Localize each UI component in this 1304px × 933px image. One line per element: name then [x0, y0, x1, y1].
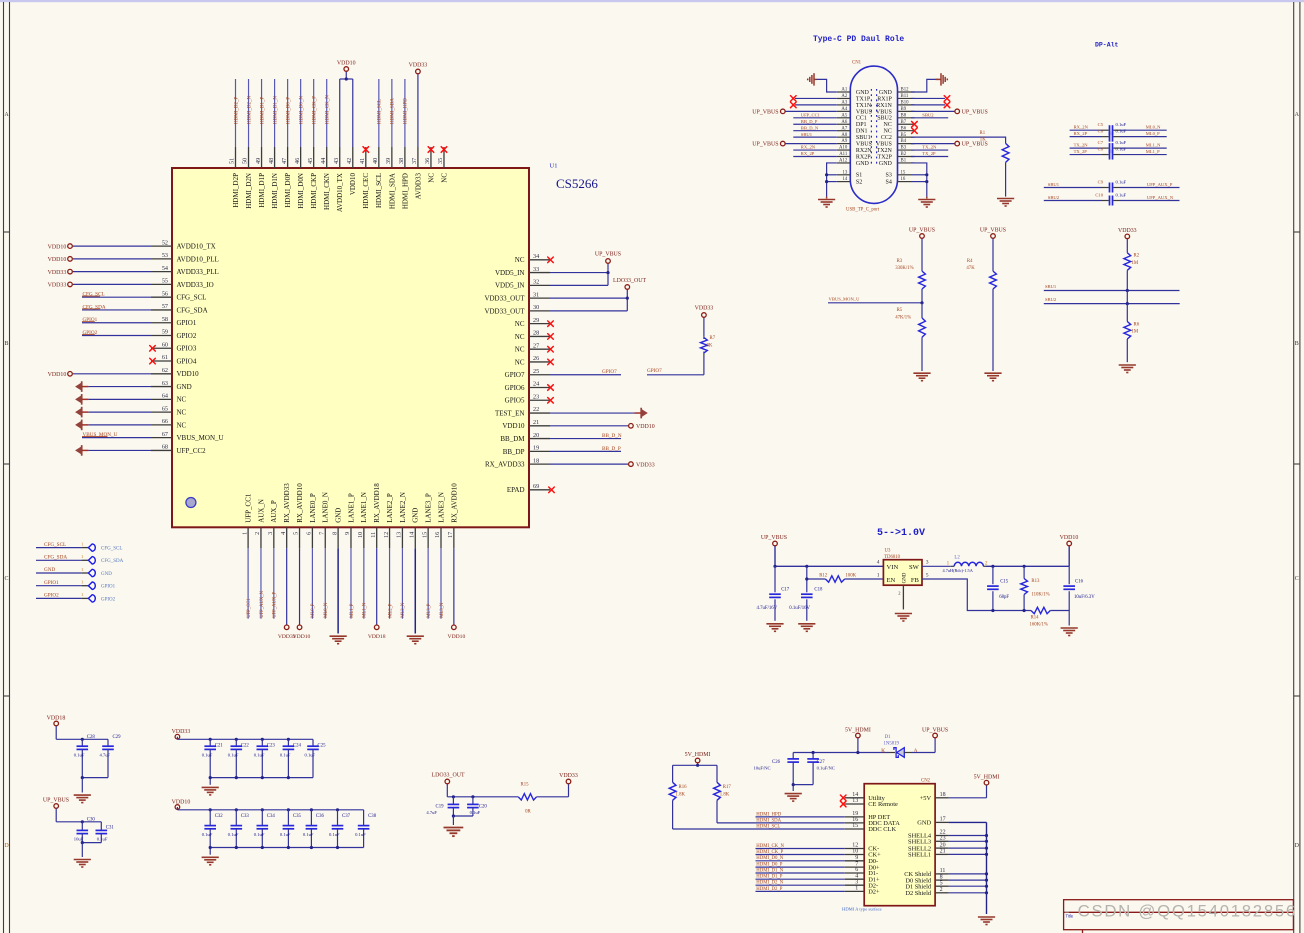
svg-text:42: 42 [346, 158, 353, 164]
svg-text:1.8K: 1.8K [720, 793, 730, 798]
svg-text:SBU1: SBU1 [1045, 284, 1057, 289]
svg-text:13: 13 [396, 532, 403, 538]
svg-text:VBUS_MON_U: VBUS_MON_U [177, 434, 224, 442]
resistor R7 [701, 336, 716, 356]
svg-text:VDD10: VDD10 [48, 372, 67, 378]
svg-text:CC1: CC1 [856, 116, 867, 122]
pin 15 LANE3_P [421, 493, 432, 619]
CN2 pin 7 D0+ [756, 861, 881, 871]
svg-text:AVDD33_PLL: AVDD33_PLL [177, 268, 219, 276]
CN1 pin A9 VBUS [837, 139, 872, 147]
ground HDMI shield bus [978, 917, 995, 925]
capacitor C36 [303, 810, 325, 848]
svg-text:C25: C25 [318, 743, 327, 748]
svg-text:UFP_AUX_P: UFP_AUX_P [1147, 182, 1173, 187]
svg-text:13: 13 [843, 170, 848, 175]
svg-text:C8: C8 [1098, 146, 1104, 151]
svg-text:66: 66 [162, 418, 168, 425]
capacitor C22 [228, 739, 250, 777]
pin 13 LANE2_N [396, 492, 407, 619]
svg-text:GPIO1: GPIO1 [83, 317, 98, 323]
svg-text:RX_AVDD10: RX_AVDD10 [450, 483, 458, 523]
svg-text:6: 6 [855, 867, 858, 873]
capacitor C16 [1063, 566, 1095, 610]
svg-text:B: B [4, 341, 8, 347]
svg-text:4.7uH(Rdc)-1.5A: 4.7uH(Rdc)-1.5A [943, 568, 974, 573]
svg-text:33: 33 [533, 266, 539, 273]
svg-text:10uF/6.3V: 10uF/6.3V [1074, 595, 1095, 600]
capacitor C21 [202, 739, 224, 777]
svg-text:CFG_SDA: CFG_SDA [44, 555, 67, 561]
svg-text:AVDD10_PLL: AVDD10_PLL [177, 255, 219, 263]
svg-text:VDD10: VDD10 [48, 257, 67, 263]
wire VDD10 bottom rail [210, 846, 363, 849]
svg-text:RX_2N: RX_2N [801, 145, 816, 150]
wire B10 RX1N no-connect [911, 102, 950, 108]
svg-text:31: 31 [533, 291, 539, 298]
svg-text:23: 23 [940, 836, 946, 842]
svg-text:55: 55 [162, 278, 168, 285]
svg-text:GND: GND [856, 161, 870, 167]
svg-text:1N5819: 1N5819 [884, 741, 900, 746]
svg-text:9: 9 [344, 532, 351, 535]
svg-text:SBU2: SBU2 [877, 116, 892, 122]
svg-text:330K/1%: 330K/1% [895, 266, 913, 271]
wire A2 TX1P no-connect [791, 96, 837, 102]
svg-text:NC: NC [884, 122, 892, 128]
pin 52 AVDD10_TX [48, 239, 216, 250]
svg-text:VDD33: VDD33 [409, 63, 428, 69]
svg-text:NC: NC [884, 129, 892, 135]
capacitor C9 [1044, 179, 1180, 192]
svg-text:1: 1 [947, 560, 950, 566]
wire SBU2 horizontal [1044, 297, 1180, 305]
ground VDD18 bank [74, 795, 91, 803]
svg-text:0.1uF: 0.1uF [1116, 128, 1127, 133]
svg-text:GPIO4: GPIO4 [177, 357, 197, 365]
svg-text:RX_2P: RX_2P [1074, 131, 1088, 136]
pin 8 GND [330, 508, 347, 644]
svg-text:HDMI_CK_P: HDMI_CK_P [756, 850, 783, 855]
resistor R13 [1021, 566, 1050, 610]
svg-text:BB_D_P: BB_D_P [602, 446, 621, 452]
svg-text:57: 57 [162, 303, 168, 310]
svg-text:GND: GND [177, 383, 192, 391]
svg-text:B: B [1295, 341, 1299, 347]
CN1 pin 16 S4 [886, 177, 911, 185]
sheet frame right [1293, 2, 1295, 933]
svg-text:U3: U3 [885, 549, 891, 554]
svg-text:HDMI_CK_N: HDMI_CK_N [326, 95, 331, 124]
ground VDD10 bank [202, 857, 219, 865]
capacitor C38 [355, 810, 377, 848]
pin 37 AVDD33 [411, 74, 422, 199]
svg-text:HDMI_D2N: HDMI_D2N [245, 173, 253, 209]
svg-text:CN1: CN1 [852, 60, 862, 65]
op-amp U1 CS5266 body [172, 168, 529, 527]
pin 4 RX_AVDD33 [280, 483, 291, 630]
B7 no-connect [912, 121, 918, 127]
svg-text:0.1uF: 0.1uF [1116, 192, 1127, 197]
svg-text:VDD10: VDD10 [502, 422, 525, 430]
pin 18 RX_AVDD33 [485, 457, 655, 468]
svg-text:CFG_SDA: CFG_SDA [101, 559, 124, 564]
svg-text:0.1uF: 0.1uF [280, 832, 291, 837]
svg-text:47K: 47K [966, 266, 975, 271]
svg-text:1: 1 [877, 572, 880, 578]
power port VDD18 [47, 716, 66, 740]
svg-text:HDMI_D1_N: HDMI_D1_N [273, 96, 278, 124]
wire A5 CC1 net UFP_CC1 [793, 112, 837, 117]
svg-text:10uF: 10uF [74, 837, 84, 842]
svg-text:VBUS: VBUS [856, 142, 872, 148]
power port UP_VBUS at B9 [911, 109, 988, 115]
svg-text:BB_DP: BB_DP [503, 448, 525, 456]
CN2 pin 18 +5V [920, 785, 987, 802]
CN2 pin 12 CK- [756, 843, 880, 853]
wire FB feedback [922, 579, 1031, 612]
svg-text:HDMI_SDA: HDMI_SDA [388, 173, 396, 209]
svg-text:R15: R15 [521, 783, 530, 788]
svg-text:AVDD33_IO: AVDD33_IO [177, 281, 214, 289]
svg-text:HDMI_D2P: HDMI_D2P [232, 173, 240, 208]
svg-text:0.1uF/16V: 0.1uF/16V [789, 606, 810, 611]
svg-text:C34: C34 [267, 814, 276, 819]
wire HDMI ground bus [986, 822, 988, 914]
svg-text:4: 4 [877, 560, 880, 566]
capacitor C28 [74, 735, 96, 778]
svg-text:HDMI_D0P: HDMI_D0P [284, 173, 292, 208]
svg-text:B10: B10 [901, 101, 910, 106]
svg-text:1M: 1M [1132, 330, 1139, 335]
svg-text:UFP_CC2: UFP_CC2 [177, 447, 207, 455]
pin 51 HDMI_D2P [229, 79, 240, 208]
power port 5V_HDMI right [974, 775, 1000, 785]
power port UP_VBUS bottom left [43, 798, 69, 822]
wire B11 RX1P no-connect [911, 96, 950, 102]
CN1 pin B9 VBUS [876, 107, 915, 115]
svg-text:C16: C16 [1075, 579, 1084, 584]
svg-text:GND: GND [879, 161, 893, 167]
connector CFG_SDA test point [36, 554, 124, 564]
svg-text:5: 5 [293, 532, 300, 535]
svg-text:HDMI A type surface: HDMI A type surface [842, 907, 882, 912]
svg-text:LANE1_N: LANE1_N [360, 492, 368, 523]
svg-text:ML0_N: ML0_N [324, 602, 329, 618]
wire A1 GND to rotated ground [817, 79, 837, 92]
svg-text:A8: A8 [841, 133, 847, 138]
svg-text:CFG_SDA: CFG_SDA [83, 304, 106, 310]
svg-text:D: D [4, 843, 9, 849]
svg-text:VBUS: VBUS [876, 142, 892, 148]
CN2 pin 6 D1- [756, 867, 879, 877]
power port VDD10 bank [172, 800, 191, 810]
wire L2 to VDD10 [986, 565, 1069, 568]
power port UP_VBUS regulator input [761, 535, 787, 566]
svg-text:TX1N: TX1N [856, 103, 872, 109]
svg-text:HDMI_SCL: HDMI_SCL [375, 173, 383, 208]
svg-text:CE Remote: CE Remote [868, 801, 898, 808]
svg-text:HDMI_CK_P: HDMI_CK_P [312, 96, 317, 124]
svg-text:AUX_P: AUX_P [270, 500, 278, 523]
svg-text:R4: R4 [967, 259, 973, 264]
svg-text:HDMI_SDA: HDMI_SDA [756, 818, 781, 823]
svg-text:4.7uF: 4.7uF [426, 810, 437, 815]
wire A12 S1 S2 ground chain [825, 163, 837, 197]
capacitor C5 [1070, 122, 1167, 135]
svg-text:RX2P: RX2P [856, 154, 871, 160]
svg-text:28: 28 [533, 330, 539, 337]
power port VDD33 above R7 [695, 306, 714, 337]
svg-text:SBU1: SBU1 [1048, 182, 1060, 187]
svg-text:HDMI_CEC: HDMI_CEC [362, 173, 370, 209]
svg-text:ML0_P: ML0_P [311, 603, 316, 618]
svg-text:27: 27 [533, 342, 539, 349]
CN1 dashed separator left [870, 89, 872, 165]
pin 9 LANE1_P [344, 493, 355, 619]
svg-text:0.1uF: 0.1uF [1116, 122, 1127, 127]
svg-text:HDMI_SDA: HDMI_SDA [391, 98, 396, 124]
svg-text:0.1uF: 0.1uF [202, 832, 213, 837]
wire VDD33 rail [177, 737, 313, 741]
svg-text:HDMI_HPD: HDMI_HPD [401, 173, 409, 209]
wire to ground VDD10 bank [209, 846, 212, 855]
svg-text:65: 65 [162, 405, 168, 412]
svg-text:CS5266: CS5266 [556, 176, 598, 191]
wire 5V_HDMI pullup rail [673, 764, 717, 783]
power port VDD33 above R2 [1118, 228, 1137, 253]
svg-text:GND: GND [879, 90, 893, 96]
svg-text:NC: NC [515, 358, 525, 366]
svg-text:C7: C7 [1098, 140, 1104, 145]
svg-text:53: 53 [162, 252, 168, 259]
wire VBUS_MON_U [828, 296, 924, 304]
svg-text:UFP_CC1: UFP_CC1 [801, 112, 821, 117]
svg-text:14: 14 [852, 792, 858, 798]
svg-text:47K/1%: 47K/1% [895, 316, 911, 321]
svg-text:3: 3 [926, 560, 929, 566]
ground regulator output [1061, 628, 1078, 636]
svg-text:VDD33: VDD33 [172, 729, 191, 735]
svg-text:C30: C30 [87, 818, 96, 823]
power port LDO33_OUT at pins 31/30 [613, 278, 646, 300]
svg-text:C17: C17 [781, 588, 790, 593]
power port UP_VBUS at A4 [752, 109, 837, 115]
svg-text:B3: B3 [901, 146, 907, 151]
svg-text:R7: R7 [710, 336, 716, 341]
CN1 pin B11 RX1P [877, 94, 914, 102]
svg-text:34: 34 [533, 253, 539, 260]
svg-text:ML3_N: ML3_N [440, 602, 445, 618]
capacitor C24 [280, 739, 302, 777]
capacitor C23 [254, 739, 276, 777]
pin 69 EPAD [507, 483, 554, 494]
svg-text:0.1uF: 0.1uF [303, 832, 314, 837]
CN1 pin 13 S1 [837, 170, 862, 178]
svg-text:C27: C27 [817, 760, 826, 765]
pin 48 HDMI_D1N [268, 79, 279, 209]
svg-text:BB_D_N: BB_D_N [801, 125, 819, 130]
resistor R14 [1030, 607, 1070, 627]
svg-text:AVDD10_TX: AVDD10_TX [336, 173, 344, 212]
wire LDO33 bottom rail [452, 814, 473, 817]
wire diode anode to UP_VBUS [911, 738, 935, 752]
CN2 pin 13 CE Remote [840, 798, 898, 808]
svg-text:CC2: CC2 [881, 135, 892, 141]
svg-text:15: 15 [421, 532, 428, 538]
svg-text:VBUS: VBUS [876, 109, 892, 115]
CN1 pin B1 GND [879, 159, 915, 167]
capacitor C31 [96, 822, 115, 843]
svg-text:VDD10: VDD10 [48, 244, 67, 250]
svg-text:15: 15 [901, 170, 906, 175]
svg-text:20: 20 [533, 432, 539, 439]
svg-text:3: 3 [855, 879, 858, 885]
svg-text:HDMI_D0_N: HDMI_D0_N [299, 96, 304, 124]
pin 19 BB_DP [503, 445, 621, 456]
capacitor C7 [1070, 140, 1167, 153]
power port 5V_HDMI left [685, 752, 711, 765]
CN1 pin B10 RX1N [876, 101, 914, 109]
pin 57 CFG_SDA [82, 303, 208, 314]
svg-text:32: 32 [533, 279, 539, 286]
wire UP_VBUS rail [56, 820, 101, 823]
svg-text:R3: R3 [897, 259, 903, 264]
wire LDO33 rail [447, 795, 518, 798]
svg-text:C21: C21 [215, 743, 224, 748]
ground below U3 [895, 614, 912, 622]
svg-text:C19: C19 [436, 805, 445, 810]
pin 47 HDMI_D0P [281, 79, 292, 208]
CN2 pin 21 SHELL1 [908, 849, 988, 859]
capacitor C18 [789, 588, 823, 621]
svg-text:0.1uF: 0.1uF [228, 752, 239, 757]
CN1 pin B2 TX2P [878, 152, 915, 160]
svg-text:LANE1_P: LANE1_P [347, 493, 355, 523]
svg-text:NC: NC [177, 421, 187, 429]
svg-text:DDC CLK: DDC CLK [868, 826, 896, 833]
svg-text:58: 58 [162, 316, 168, 323]
svg-text:UFP_AUX_P: UFP_AUX_P [273, 591, 278, 617]
svg-text:A4: A4 [841, 107, 847, 112]
svg-text:ML1_P: ML1_P [1146, 149, 1160, 154]
svg-text:Type-C PD Daul Role: Type-C PD Daul Role [813, 35, 904, 44]
svg-text:B5: B5 [901, 133, 907, 138]
svg-text:ML3_P: ML3_P [427, 603, 432, 618]
svg-text:S2: S2 [856, 180, 862, 186]
svg-text:C26: C26 [772, 760, 781, 765]
svg-text:5V_HDMI: 5V_HDMI [685, 752, 711, 758]
svg-text:VDD33: VDD33 [636, 462, 655, 468]
svg-text:UFP_AUX_N: UFP_AUX_N [1147, 195, 1174, 200]
connector GPIO2 test point [36, 592, 116, 602]
CN2 pin 3 D2- [756, 879, 879, 889]
svg-text:DP1: DP1 [856, 122, 867, 128]
svg-text:43: 43 [333, 158, 340, 164]
svg-text:BB_D_N: BB_D_N [602, 433, 622, 439]
power port VDD33 over pin 37 [409, 63, 428, 74]
svg-text:VDD33_OUT: VDD33_OUT [484, 295, 525, 303]
svg-text:NC: NC [515, 333, 525, 341]
svg-text:GND: GND [903, 572, 908, 583]
svg-text:C33: C33 [241, 814, 250, 819]
svg-text:19: 19 [533, 445, 539, 452]
wire SBU1 horizontal [1044, 284, 1180, 292]
svg-text:51: 51 [229, 158, 236, 164]
CN2 pin 8 D0 Shield [905, 874, 988, 884]
svg-text:160K/1%: 160K/1% [1030, 623, 1048, 628]
svg-text:R17: R17 [723, 785, 732, 790]
svg-text:40: 40 [372, 158, 379, 164]
svg-text:EPAD: EPAD [507, 486, 525, 494]
CN1 pin 15 S3 [886, 170, 911, 178]
pin 6 LANE0_P [306, 493, 317, 619]
svg-text:RX_AVDD33: RX_AVDD33 [283, 483, 291, 523]
pin 63 GND [75, 380, 192, 392]
inductor L2 [943, 556, 988, 573]
svg-text:R6: R6 [1134, 322, 1140, 327]
resistor R16 [669, 782, 687, 829]
svg-text:B6: B6 [901, 126, 907, 131]
diode D1 1N5819 [881, 735, 918, 757]
svg-text:C37: C37 [342, 814, 351, 819]
pin 59 GPIO2 [82, 329, 197, 340]
svg-text:0.1uF: 0.1uF [329, 832, 340, 837]
svg-text:VDD10: VDD10 [636, 424, 655, 430]
capacitor C34 [254, 810, 276, 848]
connector CN2 HDMI body [864, 784, 935, 906]
pin 25 GPIO7 [505, 368, 621, 379]
svg-text:16: 16 [901, 177, 906, 182]
svg-text:GPIO1: GPIO1 [101, 585, 116, 590]
pin 65 NC [75, 405, 186, 417]
svg-text:C6: C6 [1098, 128, 1104, 133]
ground right of CN1 [936, 73, 948, 85]
svg-text:A2: A2 [841, 94, 847, 99]
connector CN1 USB Type-C body [850, 66, 897, 203]
pin 28 NC [515, 330, 554, 341]
ground below C17 [766, 624, 783, 632]
svg-text:RX_2N: RX_2N [1074, 125, 1089, 130]
svg-text:50: 50 [242, 158, 249, 164]
capacitor C10 [1044, 192, 1180, 205]
capacitor C17 [757, 566, 790, 621]
svg-text:C36: C36 [316, 814, 325, 819]
svg-text:R14: R14 [1031, 615, 1040, 620]
svg-text:39: 39 [385, 158, 392, 164]
pin 45 HDMI_CKP [307, 79, 318, 209]
pin 43 AVDD10_TX [333, 79, 344, 212]
svg-text:GPIO2: GPIO2 [177, 332, 197, 340]
wire VIN rail [773, 565, 883, 568]
svg-text:1: 1 [241, 532, 248, 535]
svg-text:GPIO7: GPIO7 [505, 371, 525, 379]
svg-text:B12: B12 [901, 88, 910, 93]
svg-text:AVDD10_TX: AVDD10_TX [177, 243, 216, 251]
svg-text:A6: A6 [841, 120, 847, 125]
svg-text:UFP_CC1: UFP_CC1 [245, 493, 253, 523]
svg-text:0.1uF: 0.1uF [254, 832, 265, 837]
svg-text:C18: C18 [814, 588, 823, 593]
svg-text:VDD33: VDD33 [48, 283, 67, 289]
svg-text:21: 21 [533, 419, 539, 426]
svg-text:VDD10: VDD10 [337, 61, 356, 67]
svg-text:UFP_CC1: UFP_CC1 [247, 598, 252, 618]
pin 20 BB_DM [500, 432, 621, 443]
svg-text:2: 2 [985, 560, 988, 566]
resistor R15 [518, 783, 568, 815]
svg-text:NC: NC [515, 346, 525, 354]
